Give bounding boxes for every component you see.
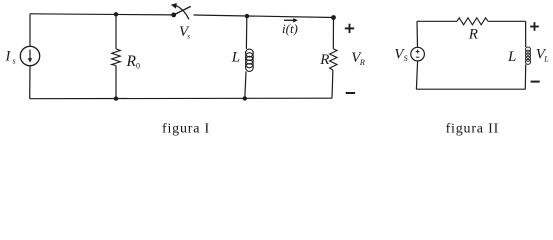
wire: figura I top, left segment (to switch) (30, 14, 174, 15)
plus sign VL (530, 22, 539, 31)
wire: figura II right vertical top lead (525, 21, 527, 47)
wire: L branch top lead (245, 16, 247, 49)
svg-text:figura II: figura II (446, 122, 499, 137)
wire: figura II bottom (416, 88, 525, 90)
wire: figura II right vertical bottom lead (524, 64, 526, 89)
wire: figura II top right segment (488, 20, 526, 22)
svg-text:S: S (404, 54, 408, 63)
svg-text:i(t): i(t) (282, 21, 298, 36)
svg-text:L: L (231, 50, 240, 66)
resistor R figura I (zigzag) (330, 49, 337, 70)
wire: R branch bottom lead (331, 70, 334, 98)
svg-text:L: L (507, 49, 516, 65)
wire: figura II top left segment (417, 20, 457, 22)
svg-text:figura I: figura I (162, 122, 210, 137)
svg-text:R: R (359, 57, 366, 67)
wire: figura II left vertical top lead (416, 21, 419, 47)
label Vs (switch) (179, 24, 190, 41)
svg-text:I: I (5, 49, 12, 65)
current source Is (circle with down arrow) (20, 46, 39, 65)
wire: figura I bottom (30, 97, 332, 100)
wire: R0 branch top lead (115, 14, 117, 49)
inductor L figura II (coil) (526, 47, 531, 64)
svg-text:R: R (319, 52, 329, 68)
node: junction R0 top (114, 12, 118, 16)
node: junction L bottom (243, 96, 247, 100)
minus sign VL (531, 81, 540, 83)
svg-text:R: R (468, 27, 478, 43)
wire: R0 branch bottom lead (115, 66, 117, 99)
label VS (394, 47, 407, 64)
label VR (351, 50, 366, 67)
wire: figura I top, right segment (switch to right corner) (194, 15, 334, 18)
current arrow i(t) (284, 18, 298, 22)
node: junction L top (245, 14, 249, 18)
resistor R figura II (horizontal zigzag) (457, 18, 488, 25)
wire: R branch top lead (332, 18, 334, 49)
svg-text:s: s (13, 57, 16, 66)
inductor L figura I (coil) (246, 49, 254, 71)
node: corner top-right figura I (331, 15, 336, 20)
svg-text:L: L (543, 55, 549, 64)
wire: figura I left vertical (bottom part) (29, 66, 31, 99)
label VL (536, 47, 550, 64)
voltage source VS (circle with + and -) (411, 47, 425, 61)
wire: L branch bottom lead (245, 71, 246, 98)
node: junction R0 bottom (114, 96, 118, 100)
svg-text:0: 0 (136, 62, 140, 71)
plus sign VR (345, 24, 354, 33)
svg-text:s: s (187, 33, 190, 41)
minus sign VR (346, 92, 355, 94)
label Is (5, 49, 16, 66)
switch Vs (pivot dot, open blade, opening arrow) (171, 3, 191, 19)
wire: figura II left vertical bottom lead (416, 61, 417, 89)
svg-text:R: R (126, 53, 137, 70)
wire: figura I left vertical (top part) (29, 14, 31, 47)
resistor R0 (zigzag) (112, 49, 121, 66)
label R0 (126, 53, 141, 71)
